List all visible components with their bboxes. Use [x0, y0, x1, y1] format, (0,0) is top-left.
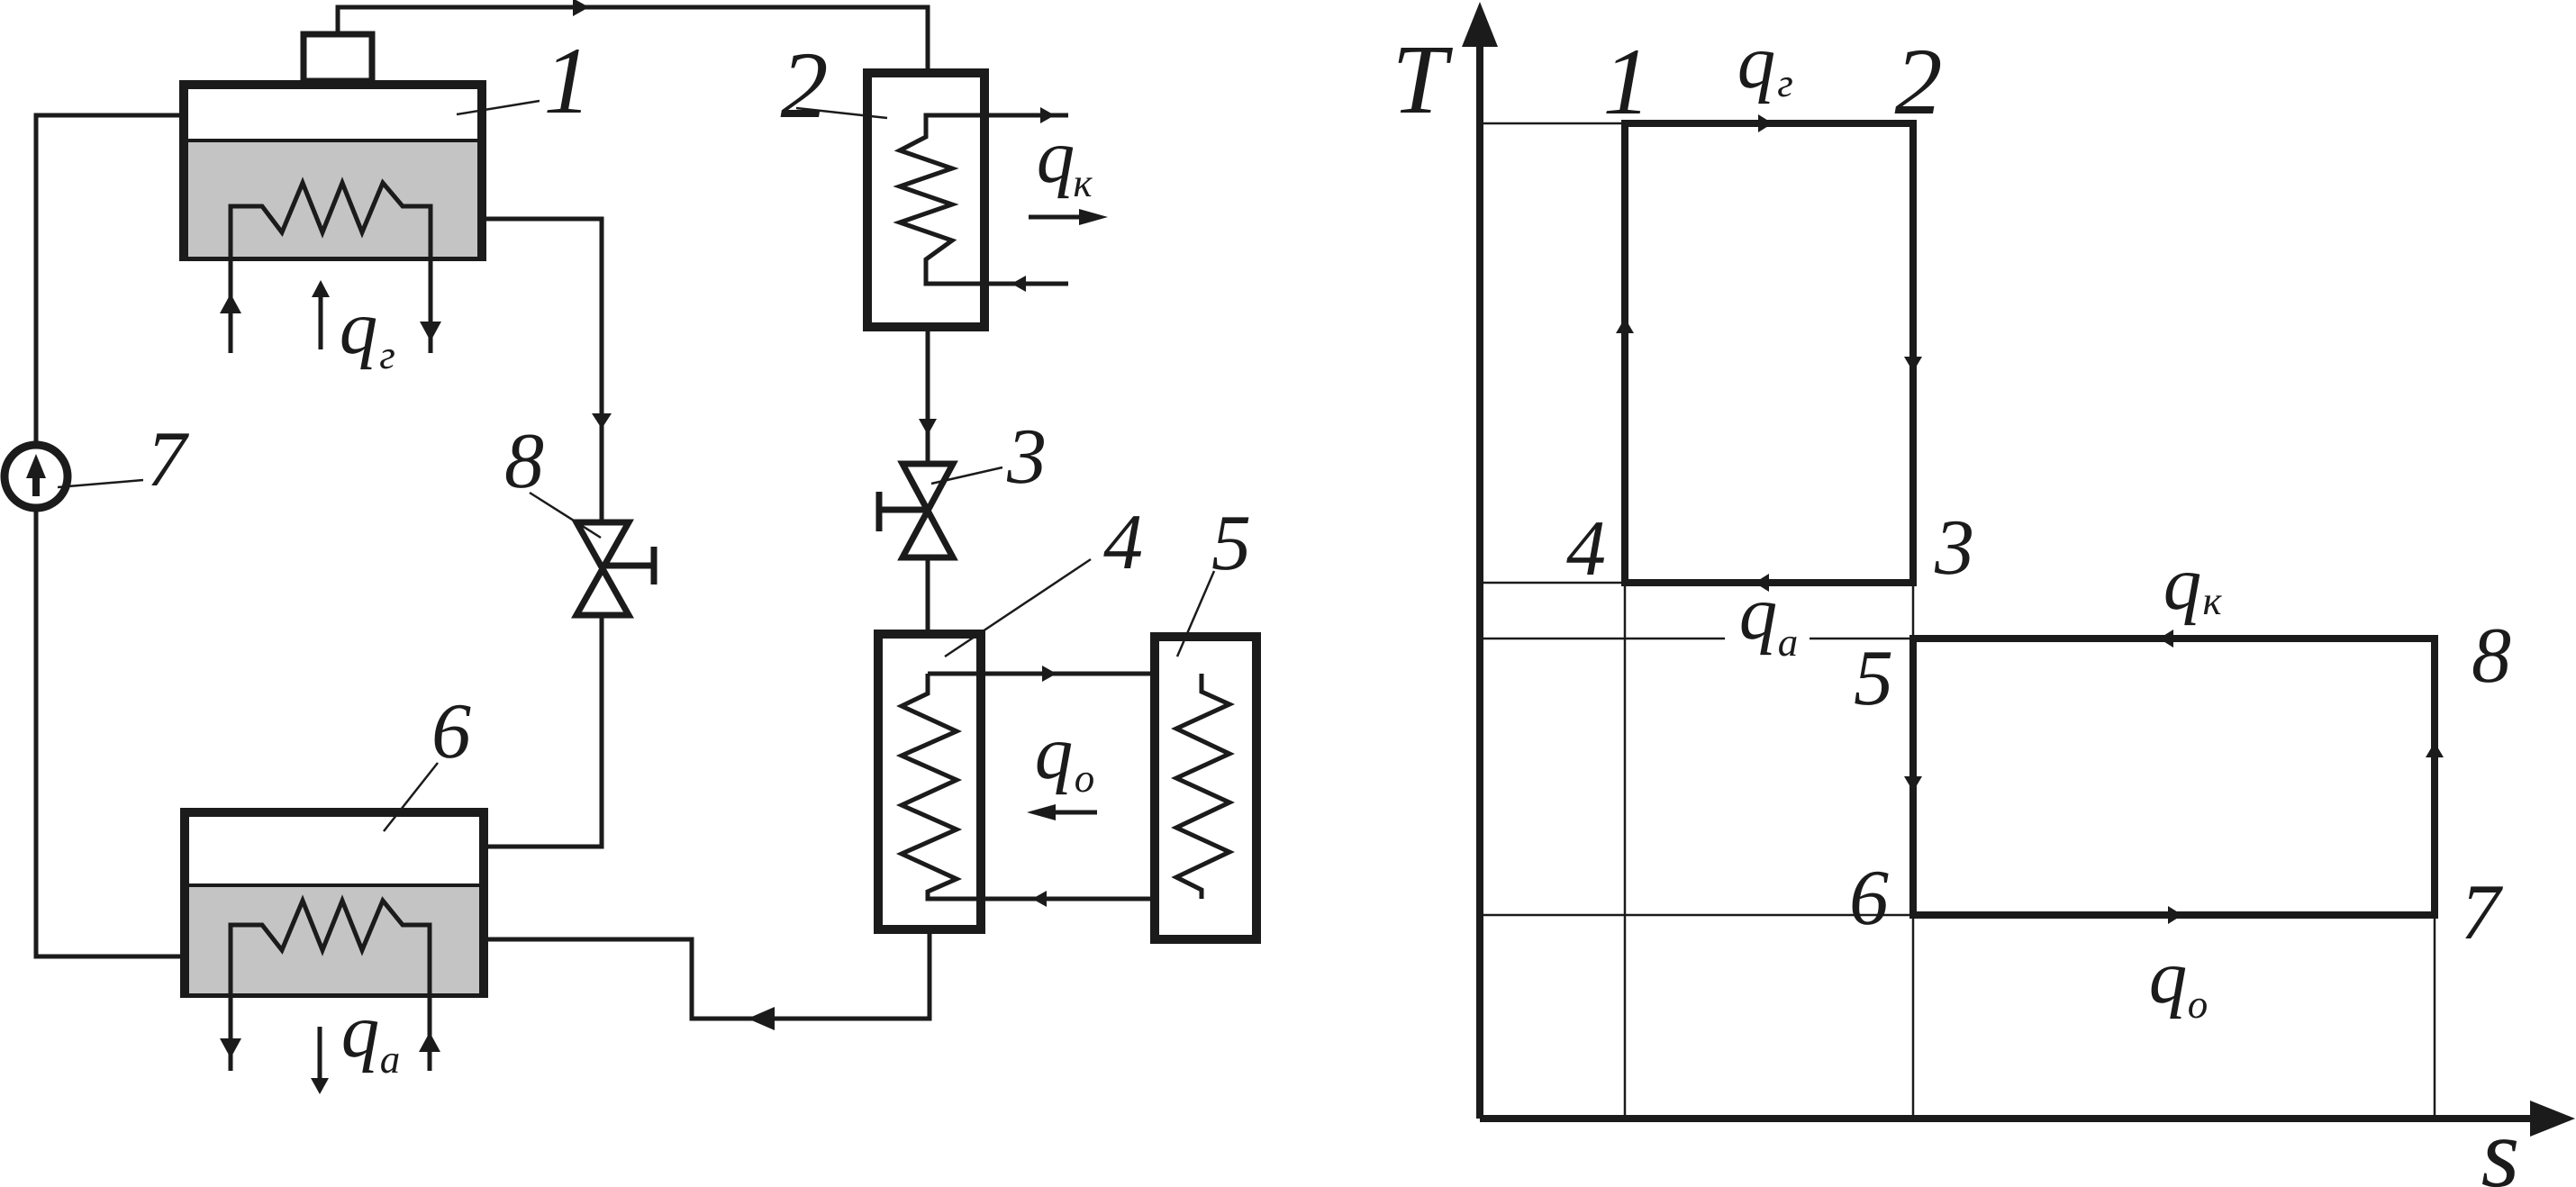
generator heating coil — [231, 183, 431, 353]
generator coil inlet arrow (up) — [220, 294, 241, 313]
svg-text:г: г — [1777, 60, 1793, 105]
condenser coil — [900, 115, 1068, 284]
valve 8 — [576, 522, 629, 615]
generator vapor nozzle — [304, 34, 372, 81]
grid line q_a level (y=713) — [1480, 638, 1913, 640]
lower cycle 5-6-7-8 — [1913, 639, 2435, 915]
svg-text:2: 2 — [1895, 29, 1943, 134]
svg-text:q: q — [341, 989, 380, 1074]
grid line at T4 (y=647) — [1480, 582, 1621, 584]
svg-text:1: 1 — [544, 28, 592, 133]
svg-text:q: q — [340, 285, 378, 370]
svg-text:T: T — [1392, 24, 1453, 134]
arrow into valve 8 — [592, 413, 612, 429]
svg-text:8: 8 — [504, 418, 544, 505]
svg-text:6: 6 — [1849, 855, 1889, 942]
label 4 leader — [945, 559, 1091, 657]
arrow 4-1 (up) — [1616, 318, 1634, 333]
T axis — [1476, 45, 1483, 1119]
q_a heat arrow (down) — [318, 1027, 322, 1078]
absorber coil inlet arrow (up) — [419, 1032, 440, 1052]
evaporator coil + top interconnect to coil 5 — [902, 674, 1202, 899]
q_o arrow (left) — [1050, 811, 1097, 815]
svg-text:5: 5 — [1211, 500, 1251, 587]
label 8 leader — [530, 493, 601, 538]
label 7 leader — [58, 480, 143, 487]
coil 5 zigzag — [1176, 674, 1229, 899]
svg-text:q: q — [2149, 935, 2188, 1019]
svg-text:o: o — [1075, 756, 1095, 801]
svg-text:a: a — [1778, 620, 1799, 665]
wire valve 3 to evaporator 4 — [926, 557, 930, 634]
wire generator left to pump (node between 1 and 7) — [36, 115, 181, 443]
q_g heat arrow (up) — [319, 297, 323, 349]
arrow 3-4 (left) — [1755, 574, 1769, 592]
svg-text:q: q — [1737, 20, 1776, 104]
label 3 leader — [931, 467, 1002, 484]
absorber vessel 6 — [185, 812, 484, 993]
label 6 leader — [384, 763, 438, 831]
svg-text:7: 7 — [2461, 869, 2504, 956]
svg-text:4: 4 — [1103, 499, 1143, 586]
svg-text:q: q — [2163, 541, 2202, 626]
label 2 leader — [796, 108, 887, 118]
valve 3 — [903, 464, 953, 557]
svg-text:1: 1 — [1603, 29, 1651, 134]
upper cycle 1-2-3-4 — [1625, 123, 1913, 583]
svg-text:3: 3 — [1934, 504, 1974, 592]
absorber liquid (gray) — [189, 887, 479, 993]
arrow 8-5 (left) — [2159, 630, 2173, 648]
vapor line arrow (left) — [748, 1007, 775, 1030]
absorber liquid level line — [185, 883, 484, 887]
vapor line evaporator to absorber — [484, 929, 930, 1019]
wire generator right to valve 8 — [482, 219, 602, 521]
grid vertical s4 (x=1804) — [1624, 583, 1627, 1119]
svg-text:s: s — [2481, 1098, 2520, 1187]
wire generator top to condenser 2 — [338, 7, 928, 68]
generator liquid level line — [184, 139, 482, 142]
svg-text:q: q — [1035, 711, 1074, 795]
svg-text:o: o — [2188, 982, 2209, 1027]
interconnect bottom arrow (left) — [1032, 891, 1047, 907]
valve 8 handle — [603, 547, 654, 584]
condenser 2 — [867, 73, 984, 327]
pump 7 internal arrow — [26, 454, 46, 496]
generator vessel 1 — [184, 85, 482, 257]
interconnect top arrow (right) — [1042, 666, 1057, 682]
absorber coil outlet arrow (down) — [220, 1038, 241, 1058]
svg-text:3: 3 — [1006, 413, 1047, 501]
grid vertical s7 (x=2703) — [2434, 915, 2436, 1119]
wire valve 8 to absorber — [484, 615, 602, 847]
valve 3 handle — [879, 492, 928, 531]
svg-text:a: a — [380, 1037, 401, 1082]
svg-text:q: q — [1739, 571, 1778, 656]
svg-text:2: 2 — [781, 32, 829, 138]
heat source coil 5 — [1155, 637, 1256, 939]
s axis — [1480, 1115, 2534, 1122]
pump 7 — [5, 445, 68, 508]
wire condenser to valve 3 — [926, 327, 930, 462]
label 5 leader — [1177, 571, 1214, 657]
arrow into valve 3 — [919, 419, 937, 435]
absorber cooling coil — [231, 901, 430, 1071]
q_k arrow (right) — [1029, 215, 1081, 220]
svg-text:8: 8 — [2472, 612, 2511, 700]
arrow 2-3 (down) — [1904, 357, 1922, 372]
condenser coolant in arrow — [1011, 276, 1026, 292]
grid line at T1 (y=137) — [1480, 122, 1621, 125]
flow arrow on top wire — [573, 0, 589, 16]
svg-text:г: г — [379, 332, 395, 377]
generator liquid (gray) — [188, 141, 477, 257]
svg-text:к: к — [2202, 578, 2222, 623]
svg-text:4: 4 — [1566, 505, 1606, 593]
grid line at T6 (y=1016) — [1480, 914, 1913, 917]
svg-text:6: 6 — [431, 688, 471, 775]
generator coil outlet arrow (down) — [420, 322, 441, 341]
svg-text:к: к — [1073, 160, 1093, 205]
svg-text:7: 7 — [147, 416, 190, 503]
label 1 leader — [457, 101, 540, 114]
svg-text:q: q — [1037, 114, 1075, 199]
grid vertical s3 upper (x=2124) — [1912, 585, 1915, 639]
arrow 7-8 (up) — [2426, 742, 2444, 757]
evaporator 4 — [878, 634, 981, 929]
grid vertical s3 lower (x=2124) — [1912, 915, 1915, 1119]
arrow 6-7 (right) — [2168, 906, 2182, 924]
svg-text:5: 5 — [1854, 635, 1893, 722]
arrow 1-2 (right) — [1758, 114, 1773, 132]
arrow 5-6 (down) — [1904, 776, 1922, 792]
condenser coolant out arrow — [1040, 107, 1055, 123]
wire pump to absorber — [36, 510, 185, 956]
